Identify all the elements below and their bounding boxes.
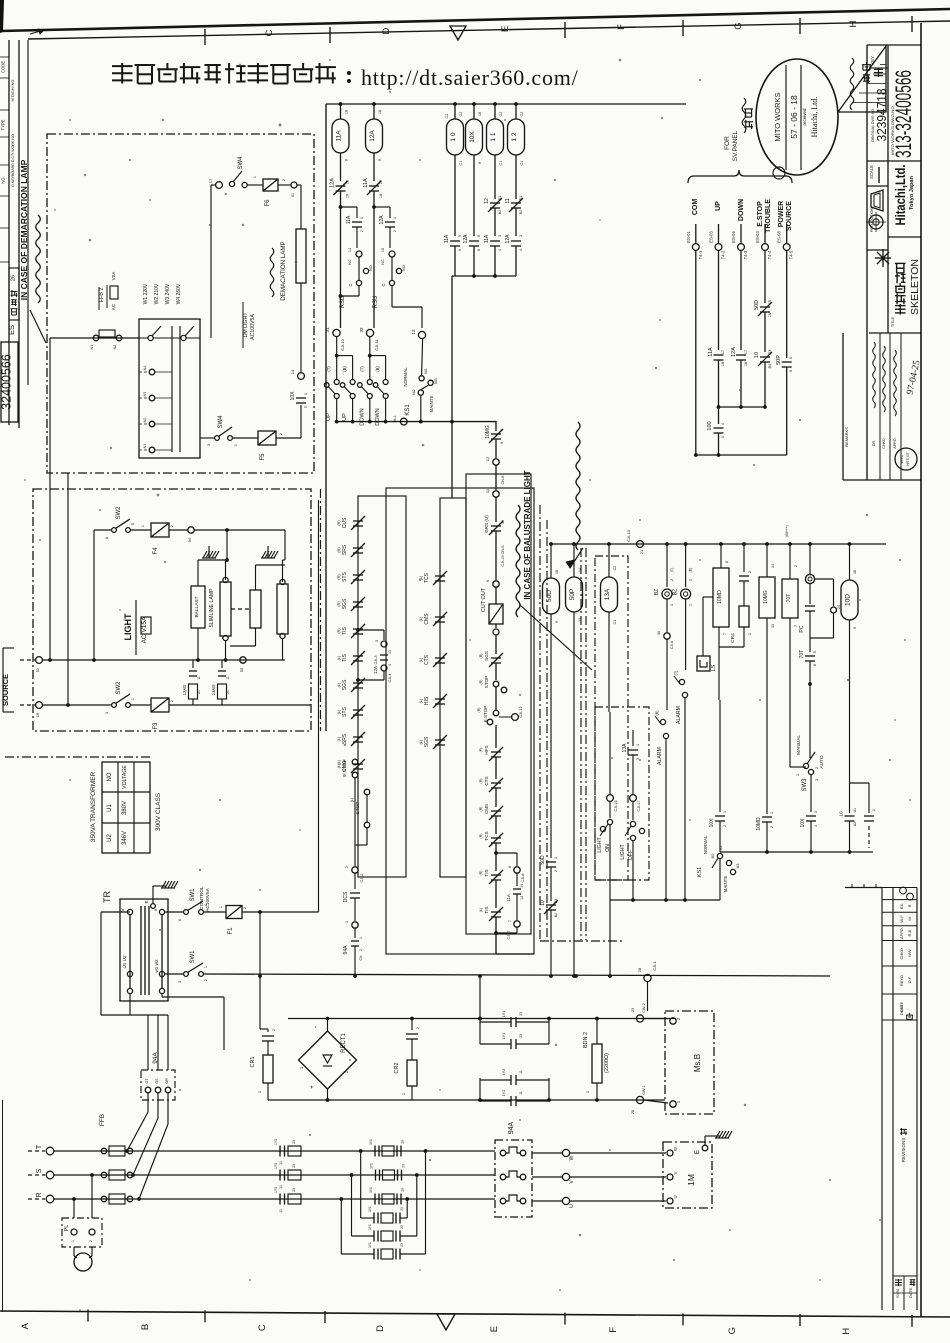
svg-text:ES-08: ES-08 [777, 231, 782, 243]
svg-text:MITO: MITO [900, 454, 904, 463]
terminal CJI-16 [607, 795, 614, 802]
CT element left [288, 1146, 301, 1156]
balustrade dash-dot bottom [540, 940, 625, 942]
svg-text:B1: B1 [498, 196, 502, 200]
ruler tick bottom [324, 1311, 326, 1323]
svg-text:C2: C2 [613, 566, 617, 571]
svg-text:E.STOP: E.STOP [757, 201, 764, 227]
long vertical wire right of TR [318, 500, 320, 912]
svg-text:(R): (R) [477, 708, 481, 713]
small arrow mark on border [30, 30, 44, 34]
svg-text:1: 1 [141, 525, 145, 527]
switch DOWN (B) top circle [383, 380, 388, 385]
light f3 wire right [169, 704, 311, 706]
svg-text:AC V15A: AC V15A [141, 616, 148, 643]
scan edge line top [0, 9, 950, 31]
svg-text:1: 1 [500, 429, 504, 431]
svg-text:W.F: W.F [899, 915, 904, 923]
svg-text:SKELETON: SKELETON [909, 259, 921, 315]
TR E terminal [151, 904, 156, 909]
svg-text:50P: 50P [569, 589, 576, 601]
wire ESTOP mid [764, 312, 766, 352]
relay coil 13A [601, 577, 618, 612]
relay coil 10D [841, 580, 858, 620]
svg-text:CW-1: CW-1 [642, 1085, 646, 1095]
svg-text:M2: M2 [412, 389, 416, 394]
svg-text:C1: C1 [520, 161, 524, 166]
CT loop wire S right [416, 1175, 418, 1236]
TR right winding [161, 915, 163, 988]
svg-text:W4.260V: W4.260V [176, 283, 182, 304]
center outer box [386, 488, 534, 954]
svg-text:23: 23 [292, 1140, 296, 1144]
svg-text:CJI-14: CJI-14 [626, 529, 631, 542]
svg-text:CR1: CR1 [250, 1056, 256, 1067]
svg-text:18: 18 [721, 362, 725, 366]
svg-text:MAINTE: MAINTE [429, 395, 434, 412]
demarcation lamp element [296, 229, 306, 283]
terminal 30 CJI-6 [664, 633, 670, 639]
contactor pole circle L [500, 1198, 506, 1204]
terminal UP [715, 244, 722, 251]
svg-text:1Y1: 1Y1 [368, 1242, 372, 1248]
CT loop wire S left [351, 1175, 353, 1236]
svg-text:2: 2 [794, 565, 798, 567]
stamp ellipse [756, 59, 838, 175]
left strip cell divider [0, 56, 9, 58]
svg-text:TIS: TIS [484, 906, 489, 913]
svg-text:6: 6 [458, 249, 462, 251]
svg-text:BDN 2: BDN 2 [583, 1032, 589, 1048]
wire down to rectifier cr1 [259, 912, 261, 1029]
terminal 55 [240, 657, 246, 663]
contactor 94A main box [495, 1140, 532, 1217]
svg-text:DEMACATION LAMP: DEMACATION LAMP [280, 241, 287, 300]
capacitor CR1 top [262, 1036, 274, 1041]
contact 11A 15-16 NC [367, 181, 381, 195]
svg-text:AC100V5A: AC100V5A [205, 887, 211, 912]
svg-text:STOP: STOP [355, 802, 361, 815]
svg-text:BALLAST: BALLAST [194, 596, 200, 617]
title block divider 2 [888, 236, 921, 238]
svg-text:(R): (R) [479, 834, 483, 839]
svg-text:ES-06: ES-06 [731, 231, 736, 243]
13AD branch wire [221, 660, 223, 668]
svg-text:13: 13 [771, 624, 775, 628]
svg-text:(P): (P) [479, 748, 483, 753]
wire terminal E.STOP upper [764, 224, 766, 243]
svg-text:F3: F3 [153, 722, 159, 730]
ballast box [191, 586, 205, 628]
terminal 1 chain D [352, 922, 358, 928]
light on-off dash box [595, 707, 649, 880]
svg-text:13AD: 13AD [182, 685, 187, 695]
svg-text:KEY.: KEY. [870, 55, 875, 64]
svg-text:T4-4: T4-4 [767, 250, 772, 259]
svg-text:3: 3 [375, 640, 379, 642]
svg-text:CJI-1: CJI-1 [652, 960, 657, 970]
capacitor 24 [805, 606, 815, 611]
contactor pole circle R [520, 1198, 526, 1204]
svg-text:F: F [616, 24, 627, 30]
title block top line [867, 44, 921, 46]
contact CMG (L) [351, 759, 365, 773]
svg-text:9: 9 [555, 621, 559, 623]
svg-text:B2: B2 [519, 210, 523, 214]
contact HFS (P) NC [489, 747, 503, 761]
handwriting near stamp [742, 98, 746, 133]
left vertical inside light box [67, 473, 69, 705]
svg-text:B2: B2 [554, 913, 558, 917]
svg-text:M: M [907, 917, 912, 920]
svg-text:C: C [257, 1324, 268, 1331]
terminal 12 chain C [493, 459, 499, 465]
svg-text:7: 7 [508, 920, 512, 922]
wire coil10 down [454, 155, 456, 236]
svg-text:2: 2 [748, 571, 752, 573]
resistor CR2 [407, 1060, 417, 1086]
svg-text:10X: 10X [290, 391, 296, 401]
svg-text:A1: A1 [853, 808, 857, 812]
fuse F1 [226, 906, 242, 919]
svg-text:(T): (T) [326, 366, 331, 372]
ruler tick top [329, 27, 331, 43]
svg-text:REVISIONS: REVISIONS [901, 1138, 906, 1163]
arrow line [570, 548, 583, 568]
contact TIS (L) [351, 651, 365, 665]
svg-text:10MD: 10MD [717, 590, 723, 604]
wire to SW2 upper [94, 529, 111, 531]
svg-text:8: 8 [725, 561, 729, 563]
svg-text:10: 10 [839, 811, 844, 817]
svg-text:1: 1 [689, 604, 693, 606]
svg-text:11: 11 [197, 676, 201, 680]
svg-text:3: 3 [815, 779, 819, 781]
svg-text:C1: C1 [459, 161, 463, 166]
pilot lamp bulb [74, 1253, 92, 1271]
terminal phase S [46, 1171, 54, 1179]
wire DOWN to bus [740, 360, 742, 407]
svg-text:Ms.B: Ms.B [693, 1054, 702, 1072]
switch LIGHT ON circle a [607, 819, 612, 824]
ruler triangle bottom [437, 1314, 455, 1330]
outer dash-dot boundary right of light box [320, 489, 322, 731]
wire TR V down [100, 912, 102, 1015]
svg-text:12A: 12A [463, 234, 469, 244]
wire mid down [718, 407, 720, 424]
left strip third line [27, 40, 29, 385]
svg-text:DOWN: DOWN [359, 408, 365, 425]
wire KS1 chain [719, 700, 721, 812]
RSU branch top [374, 206, 390, 208]
bridge rectifier RECT1 [299, 1031, 357, 1089]
CT element left [288, 1194, 301, 1204]
svg-text:CN-6: CN-6 [501, 476, 505, 485]
svg-text:7: 7 [794, 625, 798, 627]
svg-text:346V: 346V [122, 831, 128, 845]
terminal 32 [366, 329, 373, 336]
wire 13A [608, 544, 610, 577]
contact 50D 15-16 NC [758, 302, 772, 316]
svg-text:94A: 94A [508, 1121, 515, 1134]
contact TIS (L) NC [489, 907, 503, 921]
wire to alarm B switch [666, 639, 668, 710]
STOP L circle a [364, 789, 370, 795]
svg-text:G: G [727, 1327, 738, 1334]
FFB fuse circle left [101, 1196, 107, 1202]
svg-text:STOP: STOP [484, 676, 489, 688]
svg-text:1 2: 1 2 [511, 132, 518, 141]
title chinese char [895, 263, 906, 273]
svg-text:10MG: 10MG [763, 590, 769, 604]
svg-text:D: D [375, 1325, 386, 1332]
light lower bus [43, 659, 285, 661]
wire left of SW4 down [210, 185, 212, 338]
contact SRS (L) [351, 732, 365, 746]
svg-text:10: 10 [540, 900, 546, 906]
CT element left [288, 1170, 301, 1180]
svg-text:8: 8 [105, 537, 109, 539]
light off aux circle [639, 828, 644, 833]
ruler tick bottom [564, 1313, 566, 1325]
svg-text:LIGHT: LIGHT [123, 613, 133, 640]
svg-text:1: 1 [219, 906, 223, 908]
svg-text:3: 3 [721, 436, 725, 438]
strip katakana glyph 2 [11, 300, 17, 306]
svg-text:(68+++): (68+++) [785, 525, 789, 537]
svg-text:SRS: SRS [342, 544, 348, 555]
fuse FFB2 body [110, 286, 118, 299]
svg-text:4: 4 [498, 249, 502, 251]
svg-text:13A: 13A [604, 588, 611, 600]
svg-text:DM LIGHT: DM LIGHT [243, 312, 249, 338]
svg-text:CJI-6: CJI-6 [670, 641, 674, 650]
svg-text:(L): (L) [337, 736, 341, 741]
TR core bar 2 [144, 906, 146, 995]
svg-text:LIGHT: LIGHT [597, 837, 603, 853]
wire DOWN down [740, 250, 742, 350]
svg-text:T4-2: T4-2 [721, 250, 726, 259]
svg-text:CTS: CTS [424, 654, 430, 665]
svg-text:DR.: DR. [872, 440, 876, 447]
svg-text:M1: M1 [719, 846, 723, 851]
contact TCS box B [433, 571, 447, 585]
stub tick [875, 884, 877, 888]
selector switch circle 1 [148, 335, 153, 340]
revision circled letter M [907, 893, 914, 900]
contact 10MD 1-2 [762, 817, 772, 822]
svg-text:CHKD.: CHKD. [899, 947, 904, 959]
svg-text:D.F: D.F [907, 976, 912, 983]
wire LIGHT OFF top [632, 730, 634, 746]
svg-text:CJI-3: CJI-3 [374, 655, 378, 664]
svg-text:57 - 06 - 18: 57 - 06 - 18 [789, 95, 799, 139]
terminal W mid [562, 1149, 569, 1156]
svg-text:13A: 13A [622, 743, 628, 753]
svg-text:http://dt.saier360.com/: http://dt.saier360.com/ [361, 65, 579, 90]
svg-text:13: 13 [388, 650, 392, 654]
svg-text:OS: OS [155, 1078, 159, 1084]
svg-text:10: 10 [501, 520, 505, 524]
svg-text:V5A: V5A [111, 271, 116, 281]
svg-text:TR: TR [102, 891, 112, 903]
strip katakana glyph 3 [11, 290, 18, 297]
svg-text:11: 11 [519, 1070, 523, 1074]
selector bar 1 [171, 326, 173, 452]
svg-text:SW1: SW1 [190, 888, 196, 902]
dash-dot stub below light box [5, 756, 150, 758]
device box 10MG [759, 577, 775, 618]
svg-text:SLIMLINE LAMP: SLIMLINE LAMP [209, 588, 215, 628]
svg-text:3: 3 [814, 811, 818, 813]
svg-text:9: 9 [478, 162, 482, 164]
revisions cjk [900, 1128, 907, 1135]
PL terminal 1 [71, 1229, 77, 1235]
revision cell divider [882, 965, 917, 967]
wire light-on chain to bus976 [609, 900, 611, 976]
svg-text:AUTO: AUTO [819, 755, 825, 769]
svg-text:2: 2 [359, 949, 363, 951]
signature squiggle 3 [894, 350, 897, 416]
switch DOWN (B) lever [377, 387, 384, 395]
svg-text:2: 2 [204, 979, 208, 981]
svg-text:6: 6 [813, 664, 817, 666]
svg-text:10MG: 10MG [485, 425, 491, 439]
svg-text:1Y1: 1Y1 [368, 1206, 372, 1212]
svg-text:TITLE: TITLE [891, 316, 895, 327]
motor terminal W [667, 1150, 673, 1156]
svg-text:REYD.: REYD. [899, 974, 904, 986]
svg-text:10X: 10X [469, 131, 476, 143]
svg-text:SGS: SGS [484, 651, 489, 661]
svg-text:(R): (R) [337, 601, 341, 607]
svg-text:11A: 11A [506, 893, 511, 902]
terminal 11 chain C [493, 491, 499, 497]
fuse F3 [151, 698, 169, 712]
terminal CJI-1 28 [644, 974, 651, 981]
svg-text:9: 9 [345, 159, 349, 161]
arrow head [566, 560, 574, 568]
chain C from bus [495, 421, 497, 431]
CT left cap bar a [279, 1170, 281, 1181]
fold mark hatch [880, 64, 886, 66]
svg-text:STS: STS [342, 571, 348, 581]
contact TIS (R) NC [489, 870, 503, 884]
svg-text:BZ: BZ [673, 589, 679, 595]
SW4 lever [233, 171, 242, 182]
ruler triangle top [450, 26, 466, 40]
contact 11A 13-14 [513, 889, 521, 894]
switch SW4 moving circle [242, 182, 247, 187]
wire below coil 12A [373, 153, 375, 181]
wire 50D [550, 544, 552, 578]
left strip cell divider [0, 109, 9, 111]
svg-text:1Y2: 1Y2 [502, 1069, 506, 1075]
wire 13 to KS1 [422, 339, 423, 375]
svg-text:CJI-4: CJI-4 [388, 673, 392, 682]
ruler tick top [682, 20, 684, 36]
svg-text:15: 15 [768, 300, 772, 304]
switch DOWN (T) lever [361, 387, 368, 395]
13A chain dash box [595, 556, 628, 880]
svg-text:CR4: CR4 [730, 633, 736, 643]
switch SW3 circle auto [808, 769, 813, 774]
svg-text:13: 13 [578, 618, 582, 622]
balustrade leader diagonal [520, 605, 592, 670]
contactor bridge [506, 1147, 520, 1153]
svg-text:2: 2 [170, 700, 174, 702]
svg-text:1Y3: 1Y3 [274, 1187, 278, 1193]
transformer TR box [120, 899, 168, 1001]
stub coil 11A [340, 104, 342, 119]
stamp rule 1 [800, 65, 802, 170]
small fuse in label [141, 617, 151, 634]
svg-text:18: 18 [378, 110, 382, 114]
contact 12A 13-14 [380, 655, 388, 660]
svg-text:SRS: SRS [342, 733, 348, 744]
svg-text:received: received [802, 108, 807, 126]
wire below coil 11A [340, 153, 342, 181]
svg-text:11A: 11A [484, 234, 490, 243]
wire PC [809, 544, 811, 574]
svg-text:94A: 94A [152, 1052, 159, 1064]
title chinese char [895, 304, 906, 315]
svg-text:6-1: 6-1 [393, 415, 397, 421]
bus sv panel lower [696, 454, 787, 456]
contact SRS (R) [351, 543, 365, 557]
svg-text:CMS: CMS [424, 613, 430, 625]
terminal 7 CJI-7 [514, 921, 520, 927]
contact SGS (R) NC [489, 653, 503, 667]
relay coil 12 [508, 119, 525, 155]
projection symbol trapezoid [871, 190, 883, 211]
svg-text:SOURCE: SOURCE [786, 201, 793, 231]
svg-text:(R): (R) [479, 779, 483, 784]
svg-text:F: F [608, 1327, 619, 1333]
revision cell divider [882, 940, 917, 942]
wire BZ B down [685, 599, 687, 670]
svg-text:(R): (R) [337, 574, 341, 580]
svg-text:w1 w2: w1 w2 [154, 959, 159, 972]
arrow head border [38, 29, 44, 34]
revision band inner line [892, 888, 894, 1311]
svg-text:23: 23 [519, 1034, 523, 1038]
title block divider 3 [869, 332, 921, 334]
svg-text:D.KEYBOARD D.CTI.WORK NO.: D.KEYBOARD D.CTI.WORK NO. [11, 133, 15, 187]
KS1 MAINTE circle M3 [428, 380, 433, 385]
switch ALARM T circle a [679, 679, 684, 684]
wire 70T [789, 544, 791, 579]
wire UP to bus [718, 360, 720, 407]
RSU NO circle [396, 268, 401, 273]
terminal 6-1 on bus [400, 418, 407, 425]
RSU C circle [389, 280, 394, 285]
svg-text:+: + [310, 1085, 316, 1089]
svg-text:11: 11 [505, 198, 511, 203]
dashed link between tubes [231, 608, 250, 610]
svg-text:16: 16 [379, 194, 383, 198]
svg-text:W3.240V: W3.240V [165, 283, 171, 304]
svg-text:11A: 11A [336, 130, 343, 142]
fold mark triangle [838, 46, 886, 112]
svg-text:5: 5 [131, 523, 135, 525]
svg-text:17: 17 [208, 178, 213, 183]
wire F1 to right [242, 911, 319, 913]
svg-text:ES-01: ES-01 [686, 231, 691, 243]
sig divider a [879, 333, 881, 480]
svg-text:S: S [36, 1168, 43, 1173]
svg-text:TCS: TCS [484, 831, 489, 840]
